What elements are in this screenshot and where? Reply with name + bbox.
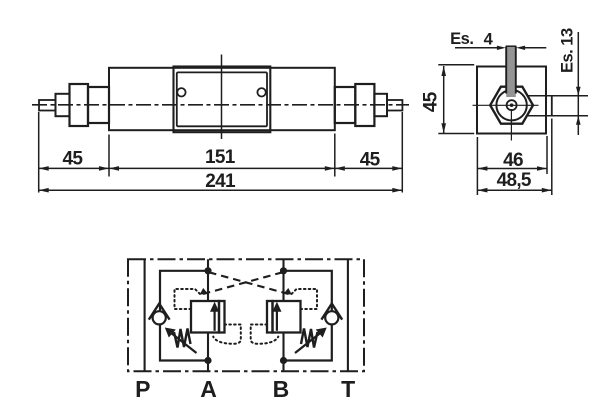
right tall block (locknut) [355,84,374,126]
dashed line arrowhead left [200,288,209,295]
right check valve ball [325,311,338,324]
right loop [284,271,332,361]
center dot [510,103,514,107]
horizontal center line [473,104,539,106]
Es13 arrowheads [576,87,581,96]
grey stem fill [506,46,516,97]
left spring adjust arrow [168,331,197,354]
left medium block [88,87,109,123]
right valve box [273,301,301,333]
46 arrowheads [477,166,487,171]
body tube [109,68,335,130]
right spring adjust arrow [295,331,324,354]
arrowheads dim row2 [39,188,49,193]
extension line body right [334,134,336,177]
extension line right stem tip [401,112,403,193]
left small block [56,94,70,116]
left tall block (locknut) [70,84,89,126]
svg-text:45: 45 [360,150,381,171]
svg-text:151: 151 [205,147,236,168]
envelope [128,259,364,371]
right spring [301,329,318,348]
right check valve seat [321,304,342,320]
right valve pilot section [267,301,273,333]
right small block [374,94,387,116]
axis center line [32,104,409,106]
hole left [177,88,185,96]
inner circle [507,100,517,110]
dashed pilot cross line A to right [209,272,289,294]
left valve arrowhead [210,302,219,312]
right pilot dotted loop lower [251,325,279,344]
45 extension lines [438,65,474,134]
Es13 dim line [577,32,579,135]
Es4 arrowheads [497,46,506,50]
P line [144,259,146,371]
svg-text:46: 46 [503,150,523,171]
48,5 arrowheads [477,188,487,193]
dimension line 45-151-45 [39,167,403,169]
svg-text:48,5: 48,5 [497,170,532,191]
45 vertical arrowheads [441,66,446,76]
right spring arrowhead [316,328,327,338]
left spring [174,329,191,348]
bottom extension lines [477,119,551,196]
svg-text:P: P [135,376,150,402]
stem edges [506,46,516,93]
right pilot dotted loop upper [291,289,317,309]
Es4 leader lines [455,47,498,49]
left valve pilot section [219,301,225,333]
dim line 48,5 [477,189,551,191]
dashed line arrowhead right [283,288,292,295]
svg-text:B: B [273,376,290,402]
right medium block [335,87,356,123]
right valve arrow shaft [276,311,278,331]
T line [347,259,349,371]
arrowheads dim row1 [39,166,49,171]
B line [282,259,284,371]
left valve arrow shaft [214,311,216,331]
svg-text:45: 45 [420,91,441,112]
svg-text:T: T [341,376,355,402]
block vertical center line [221,55,223,140]
dimension line 241 [39,189,403,191]
left valve box [191,301,219,333]
A line [207,259,209,371]
svg-text:241: 241 [205,171,236,192]
dim line 46 [477,168,547,170]
45 dim line vertical [443,66,445,133]
left check valve ball [153,311,166,324]
right stem [387,100,402,111]
svg-text:45: 45 [63,149,84,170]
svg-text:4: 4 [484,30,494,48]
central block outer [174,67,271,133]
left pilot dotted loop upper [175,289,201,309]
central block inner [177,72,267,126]
left loop [160,271,208,361]
left stem [39,100,56,111]
vertical center line [510,109,512,141]
nut circle [496,90,526,120]
left pilot dotted loop lower [213,325,241,344]
svg-text:A: A [200,376,217,402]
extension line body left [108,135,110,177]
hole right [257,88,265,96]
right valve arrowhead [272,302,281,312]
hexagon nut [490,87,533,124]
nut protrusion lines / Es13 extensions [528,95,589,97]
left check valve seat [149,304,170,320]
extension line left stem tip [38,112,40,193]
svg-text:Es. 13: Es. 13 [559,28,577,73]
junction dots [204,267,211,274]
square body [477,67,546,134]
svg-text:Es.: Es. [450,30,473,48]
dashed pilot cross line B to left [203,272,283,294]
left spring arrowhead [165,328,176,338]
